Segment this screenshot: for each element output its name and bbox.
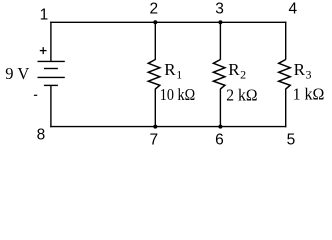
resistor R1	[148, 60, 160, 90]
svg-text:1: 1	[40, 7, 49, 24]
resistor R2	[213, 60, 225, 90]
svg-text:6: 6	[215, 131, 224, 148]
junction dot node 2	[153, 20, 157, 24]
battery B1 (9 V)	[38, 61, 65, 85]
wire: R3 top lead (node 4 corner down to R3)	[285, 22, 287, 60]
wire: battery positive lead (node 1 corner down to battery)	[50, 22, 52, 62]
label R2 designator	[228, 60, 246, 81]
svg-text:8: 8	[37, 127, 46, 144]
battery polarity mark -	[34, 94, 37, 96]
wire: R2 bottom lead (R2 down to node 6)	[219, 89, 221, 127]
wire: R1 bottom lead (R1 down to node 7)	[154, 89, 156, 127]
wire: R2 top lead (node 3 down to R2)	[219, 22, 221, 60]
svg-text:3: 3	[215, 1, 224, 18]
svg-text:1 kΩ: 1 kΩ	[293, 85, 325, 104]
junction dot node 3	[218, 20, 222, 24]
label R1 designator	[164, 60, 182, 81]
svg-text:10 kΩ: 10 kΩ	[160, 85, 195, 104]
svg-text:1: 1	[176, 67, 182, 81]
svg-text:9 V: 9 V	[5, 64, 29, 83]
junction dot node 6	[218, 125, 222, 129]
svg-text:7: 7	[149, 131, 158, 148]
wire: battery negative lead (battery down to node 8 corner)	[50, 85, 52, 127]
svg-text:R: R	[228, 60, 240, 79]
wire: R1 top lead (node 2 down to R1)	[154, 22, 156, 60]
svg-text:R: R	[164, 60, 176, 79]
resistor R3	[279, 60, 291, 90]
svg-text:5: 5	[287, 131, 296, 148]
label R3 designator	[294, 60, 312, 81]
svg-text:R: R	[294, 60, 306, 79]
battery polarity mark +	[40, 47, 47, 54]
svg-text:2: 2	[240, 68, 246, 82]
wire: R3 bottom lead (R3 down to node 5 corner)	[285, 89, 287, 128]
svg-text:2 kΩ: 2 kΩ	[226, 85, 257, 104]
svg-text:2: 2	[149, 1, 158, 18]
svg-text:3: 3	[306, 67, 312, 81]
svg-text:4: 4	[288, 1, 297, 18]
wire: top bus from node 1 to node 4	[50, 21, 286, 23]
junction dot node 7	[153, 125, 157, 129]
wire: bottom bus from node 8 to node 5	[50, 126, 286, 128]
